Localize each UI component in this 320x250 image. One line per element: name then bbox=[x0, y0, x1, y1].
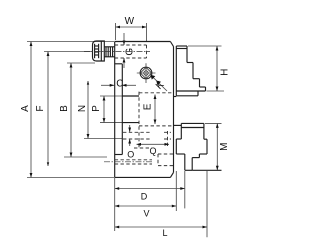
dimension A line bbox=[20, 42, 114, 178]
svg-text:W: W bbox=[125, 16, 135, 27]
center bore bbox=[122, 96, 139, 123]
dimension W bbox=[116, 16, 147, 41]
dimension V bbox=[115, 171, 177, 219]
chuck body outline bbox=[115, 42, 174, 178]
dimension D bbox=[115, 171, 185, 208]
dimension N line bbox=[77, 81, 122, 139]
tapped hole hidden lines bbox=[84, 45, 150, 58]
svg-text:O: O bbox=[127, 149, 134, 159]
svg-text:E: E bbox=[142, 103, 153, 110]
svg-text:M: M bbox=[219, 143, 230, 151]
svg-text:V: V bbox=[143, 209, 149, 219]
dimension P line bbox=[91, 96, 122, 123]
dimension F line bbox=[35, 52, 92, 167]
dimension G bbox=[123, 33, 136, 68]
svg-text:F: F bbox=[35, 105, 46, 111]
svg-text:A: A bbox=[20, 105, 31, 112]
operating screw socket circle bbox=[137, 63, 156, 83]
svg-text:L: L bbox=[162, 228, 167, 238]
bottom jaw bbox=[173, 123, 207, 170]
jaw slot hidden rect bbox=[139, 92, 174, 148]
dimension B line bbox=[59, 63, 107, 157]
back recess bbox=[115, 64, 123, 155]
top jaw bbox=[173, 46, 205, 97]
dimension H bbox=[188, 46, 231, 91]
mounting screw head bbox=[93, 41, 105, 61]
svg-text:N: N bbox=[77, 105, 88, 112]
dimension M bbox=[192, 123, 230, 170]
screw shank threaded bbox=[104, 47, 114, 57]
dimension Q bbox=[137, 143, 170, 156]
lower hidden hole + O dim bbox=[123, 125, 171, 159]
dimension L bbox=[115, 171, 207, 238]
svg-text:D: D bbox=[141, 192, 148, 202]
svg-text:Q: Q bbox=[149, 146, 156, 156]
dimension E bbox=[142, 95, 156, 125]
svg-text:H: H bbox=[220, 69, 231, 76]
dimension K leader bbox=[151, 75, 168, 92]
svg-text:B: B bbox=[59, 105, 70, 112]
lower mounting hole dashed bbox=[104, 154, 174, 166]
dimension C bbox=[101, 78, 136, 89]
svg-text:P: P bbox=[91, 105, 102, 112]
